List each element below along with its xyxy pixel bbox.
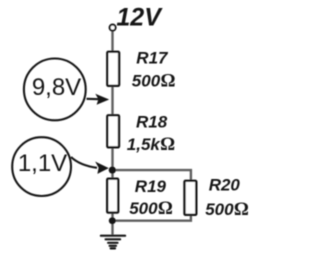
svg-text:R18: R18 bbox=[136, 113, 168, 132]
svg-text:12V: 12V bbox=[116, 4, 163, 32]
svg-text:1,1V: 1,1V bbox=[18, 150, 67, 177]
svg-text:R20: R20 bbox=[209, 176, 241, 195]
svg-text:1,5kΩ: 1,5kΩ bbox=[127, 135, 175, 155]
svg-text:500Ω: 500Ω bbox=[205, 200, 249, 220]
svg-text:9,8V: 9,8V bbox=[32, 74, 81, 101]
svg-text:500Ω: 500Ω bbox=[129, 199, 173, 219]
svg-text:500Ω: 500Ω bbox=[132, 71, 176, 91]
svg-text:R19: R19 bbox=[135, 177, 167, 196]
svg-text:R17: R17 bbox=[136, 49, 169, 68]
